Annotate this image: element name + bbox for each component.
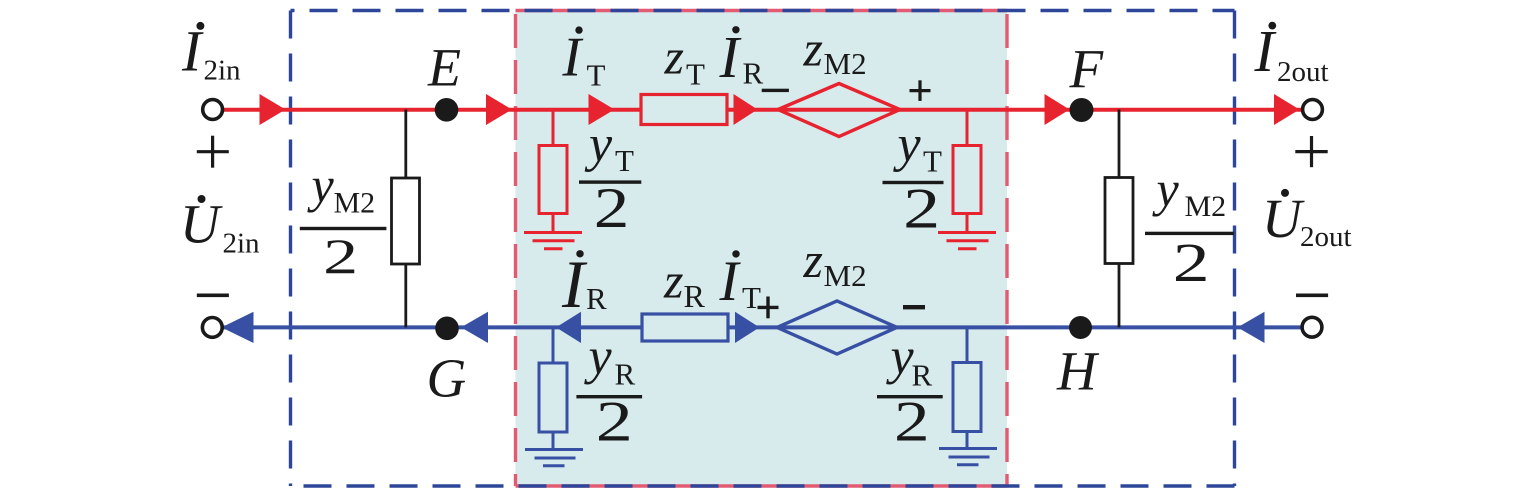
label yT/2 left <box>579 116 641 239</box>
svg-text:M2: M2 <box>824 258 867 293</box>
svg-text:I: I <box>719 24 742 90</box>
label yR/2 right <box>877 329 943 454</box>
svg-text:2: 2 <box>903 178 940 241</box>
shaded mutual-coupling region fill <box>516 11 1008 487</box>
svg-text:R: R <box>615 356 636 391</box>
node F <box>1070 98 1094 122</box>
svg-text:T: T <box>742 280 761 315</box>
svg-text:G: G <box>427 348 467 409</box>
polarity minus right of bottom diamond <box>903 305 925 309</box>
svg-text:y: y <box>584 116 613 173</box>
current arrow after node E <box>486 94 512 125</box>
label I2in <box>181 19 241 87</box>
svg-text:I: I <box>561 246 588 322</box>
terminal: output top <box>1303 100 1323 120</box>
svg-text:y: y <box>584 329 613 386</box>
terminal: output bottom <box>1302 317 1322 337</box>
label IT (bottom) <box>719 250 762 315</box>
resistor yR/2 left <box>539 363 567 432</box>
svg-text:z: z <box>664 29 684 85</box>
current arrow IR (bottom, leftward) <box>556 312 581 343</box>
svg-text:T: T <box>686 56 705 91</box>
terminal: input top <box>203 100 223 120</box>
resistor zT (series, top) <box>641 95 727 125</box>
svg-text:F: F <box>1069 38 1105 99</box>
svg-text:I: I <box>719 250 742 313</box>
svg-text:E: E <box>427 37 461 97</box>
current arrow I2out (top, to terminal) <box>1274 94 1300 125</box>
wire: left yM2/2 stem <box>404 110 407 328</box>
resistor zR (series, bottom) <box>642 314 728 341</box>
svg-text:T: T <box>587 57 606 92</box>
svg-text:2in: 2in <box>223 228 261 260</box>
resistor yT/2 left <box>539 146 567 214</box>
node E <box>435 98 459 122</box>
current arrow IR (top, into diamond) <box>734 94 758 125</box>
wire: right yM2/2 stem <box>1118 110 1121 328</box>
polarity plus at input <box>197 136 229 168</box>
label I2out <box>1254 18 1329 88</box>
wire: bottom rail (blue) <box>222 325 1302 329</box>
current arrow IT (top) <box>589 94 615 125</box>
ground below yT/2 left <box>524 214 582 249</box>
svg-text:z: z <box>803 21 823 77</box>
ground below yT/2 right <box>938 214 996 249</box>
svg-text:y: y <box>1152 161 1180 217</box>
svg-text:R: R <box>912 357 933 392</box>
polarity minus at bottom-left terminal <box>197 294 229 298</box>
wire: top rail (red) <box>222 108 1302 112</box>
label zT <box>664 29 706 92</box>
current arrow entering box (bottom right) <box>1238 312 1265 343</box>
terminal: input bottom <box>202 318 222 338</box>
current arrow I2in (top, into box) <box>260 94 286 125</box>
resistor yM2/2 right <box>1105 178 1133 264</box>
svg-text:2: 2 <box>1173 233 1210 294</box>
inner dashed boundary (red) <box>516 11 1008 487</box>
wire: right yT/2 stem <box>966 110 969 146</box>
svg-text:R: R <box>743 56 764 91</box>
polarity minus left of top diamond <box>762 89 789 92</box>
current arrow IT (bottom, into diamond) <box>735 312 760 343</box>
controlled source zM2 bottom (diamond) <box>777 301 897 354</box>
node G <box>435 317 459 341</box>
ground below yR/2 right <box>939 432 997 465</box>
svg-text:2: 2 <box>594 177 630 240</box>
svg-text:R: R <box>684 278 706 314</box>
polarity plus right of top diamond <box>910 80 931 101</box>
ground below yR/2 left <box>525 432 583 466</box>
svg-text:R: R <box>586 281 607 316</box>
polarity plus at output <box>1295 136 1327 167</box>
current arrow into node F <box>1045 94 1070 125</box>
label yM2/2 right <box>1145 161 1234 294</box>
svg-text:T: T <box>923 143 942 178</box>
svg-text:H: H <box>1056 341 1100 402</box>
svg-text:2: 2 <box>323 229 358 284</box>
svg-text:z: z <box>663 253 683 309</box>
resistor yR/2 right <box>953 363 981 432</box>
label U2out <box>1262 188 1352 253</box>
label zM2 (top) <box>803 21 867 82</box>
outer dashed boundary (blue) <box>291 11 1235 487</box>
label IR (bottom) <box>561 246 607 322</box>
label zM2 (bottom) <box>803 232 867 293</box>
wire: right yR/2 stem <box>966 327 969 362</box>
current arrow into node G <box>461 312 488 343</box>
svg-text:2out: 2out <box>1277 56 1329 88</box>
wire: left yR/2 stem <box>552 327 555 363</box>
resistor yM2/2 left <box>392 178 420 264</box>
svg-text:U: U <box>1262 188 1305 249</box>
svg-text:y: y <box>893 116 922 173</box>
label yT/2 right <box>883 116 944 241</box>
svg-text:T: T <box>615 143 634 178</box>
label IR (top) <box>719 24 764 91</box>
label IT (top) <box>562 26 606 92</box>
svg-text:y: y <box>307 157 335 213</box>
svg-text:M2: M2 <box>1185 190 1227 223</box>
label zR <box>663 253 706 315</box>
svg-text:2in: 2in <box>204 55 242 87</box>
label yM2/2 left <box>300 157 387 284</box>
svg-text:2: 2 <box>596 391 633 454</box>
svg-text:y: y <box>886 329 915 386</box>
label U2in <box>180 194 260 260</box>
label yR/2 left <box>576 329 642 454</box>
svg-text:2: 2 <box>894 390 930 453</box>
resistor yT/2 right <box>953 146 981 214</box>
controlled source zM2 top (diamond) <box>778 84 900 137</box>
svg-text:I: I <box>562 27 584 89</box>
node H <box>1069 316 1092 339</box>
svg-text:z: z <box>803 232 823 288</box>
polarity plus left of bottom diamond <box>758 297 779 319</box>
wire: left yT/2 stem <box>552 110 555 146</box>
svg-text:M2: M2 <box>824 46 867 81</box>
polarity minus at bottom-right terminal <box>1296 294 1328 298</box>
svg-text:2out: 2out <box>1300 221 1352 253</box>
current arrow to bottom-left terminal <box>222 312 254 343</box>
svg-text:M2: M2 <box>334 186 376 219</box>
